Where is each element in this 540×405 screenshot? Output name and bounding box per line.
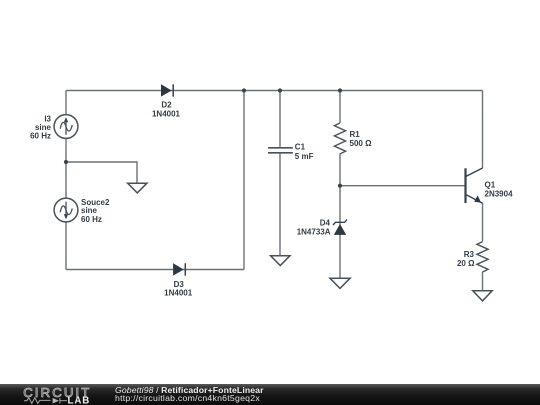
svg-text:1N4001: 1N4001: [164, 289, 193, 298]
label D3 1N4001: [164, 280, 193, 298]
label Souce2 sine 60 Hz: [81, 198, 110, 224]
current source I3: [54, 115, 78, 139]
wire collector vertical: [482, 91, 484, 169]
svg-text:1N4733A: 1N4733A: [297, 228, 331, 237]
svg-text:C1: C1: [295, 142, 306, 151]
node junction R1 on rail: [338, 88, 342, 92]
svg-text:R1: R1: [350, 130, 361, 139]
wire C1 branch: [279, 91, 281, 256]
wire emitter to R3: [482, 203, 484, 241]
resistor R1: [334, 123, 345, 154]
svg-text:sine: sine: [81, 206, 98, 215]
node junction sources: [64, 160, 68, 164]
svg-text:2N3904: 2N3904: [485, 189, 514, 198]
svg-text:D3: D3: [174, 280, 185, 289]
wire top rail: [66, 90, 483, 92]
svg-text:60 Hz: 60 Hz: [30, 132, 51, 141]
ground (sources): [128, 183, 147, 193]
svg-text:sine: sine: [35, 123, 52, 132]
wire R3 to ground: [482, 272, 484, 291]
zener diode D4: [333, 220, 347, 235]
svg-text:D2: D2: [161, 100, 172, 109]
svg-text:D4: D4: [320, 218, 331, 227]
resistor R3: [477, 242, 488, 272]
svg-text:60 Hz: 60 Hz: [81, 215, 102, 224]
wire base of Q1: [340, 185, 465, 187]
label I3 sine 60 Hz: [30, 114, 51, 140]
node junction R1-base: [338, 184, 342, 188]
wire ground stub between sources: [66, 162, 137, 183]
svg-text:LAB: LAB: [68, 396, 91, 405]
svg-text:Q1: Q1: [485, 180, 496, 189]
diode D3: [173, 263, 185, 275]
label Q1 2N3904: [485, 180, 514, 198]
label D4 1N4733A: [297, 218, 331, 236]
svg-text:1N4001: 1N4001: [152, 109, 181, 118]
capacitor C1: [268, 148, 293, 153]
ground (R3): [473, 291, 492, 301]
transistor Q1: [466, 168, 483, 203]
ground (C1): [271, 256, 290, 266]
node junction D2-D3 on rail: [242, 88, 246, 92]
wire left branch I3/Souce2 vertical: [65, 91, 67, 270]
node junction C1 on rail: [278, 88, 282, 92]
svg-text:20 Ω: 20 Ω: [457, 259, 475, 268]
wire right vertical from D3 up to top rail: [243, 91, 245, 270]
diode D2: [161, 84, 173, 96]
ground (D4): [330, 278, 350, 288]
label C1 5 mF: [295, 142, 314, 160]
credits text: [115, 384, 415, 405]
label R3 20 Ohm: [457, 250, 475, 268]
current source Souce2: [54, 198, 78, 222]
bottom credits bar: [0, 384, 540, 405]
label D2 1N4001: [152, 100, 181, 118]
CircuitLab logo: [0, 384, 100, 405]
label R1 500 Ohm: [350, 130, 373, 148]
wire bottom rail to D3: [66, 269, 244, 271]
svg-text:5 mF: 5 mF: [295, 152, 314, 161]
wire R1 branch: [339, 91, 341, 278]
svg-text:R3: R3: [464, 250, 475, 259]
svg-text:500 Ω: 500 Ω: [350, 139, 373, 148]
